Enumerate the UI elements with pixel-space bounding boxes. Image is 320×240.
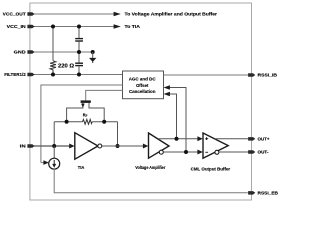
svg-text:AGC and DC: AGC and DC — [129, 76, 156, 82]
pin VCC_IN — [27, 25, 34, 29]
transistor Q1 gate bar — [81, 100, 91, 103]
wire OUT+ to pin — [215, 138, 248, 140]
svg-text:VCC_OUT: VCC_OUT — [3, 12, 26, 17]
wire TIA out — [102, 145, 144, 147]
svg-text:RSSI_IB: RSSI_IB — [258, 73, 278, 78]
arrow into CML + — [197, 136, 202, 141]
node gnd junction dot — [91, 50, 95, 54]
svg-text:+: + — [205, 137, 208, 143]
transistor Q1 left leg with arrow — [67, 103, 83, 122]
wire feedback left drop — [53, 122, 55, 146]
wire FILTER row — [34, 74, 123, 76]
svg-text:-: - — [205, 150, 209, 156]
resistor 220 ohm — [50, 61, 56, 75]
arrow into CML - — [197, 150, 202, 155]
current source I1 — [53, 146, 55, 158]
arrow into voltage amplifier — [143, 144, 148, 149]
pin OUT- — [248, 150, 255, 154]
svg-text:Offset: Offset — [136, 83, 149, 89]
pin VCC_OUT — [27, 12, 34, 16]
resistor Rf — [83, 119, 93, 124]
wire current source down — [54, 169, 248, 193]
wire VCC_OUT row — [34, 13, 114, 15]
op-amp voltage amplifier — [149, 133, 170, 158]
arrow into current source — [43, 160, 49, 165]
wire AGC tap upper (from lower rail) — [170, 88, 187, 153]
wire RSSI_IB row — [164, 74, 249, 76]
node dot FILTER x79 — [77, 73, 81, 77]
wire AGC to current source — [41, 162, 44, 164]
svg-text:OUT-: OUT- — [258, 150, 269, 155]
capacitor C2 — [75, 62, 83, 64]
node dot GND x79 — [77, 50, 81, 54]
VA output bubble — [159, 150, 163, 154]
node dot upper rail tap — [175, 137, 179, 141]
node dot VCC_IN x79 — [77, 25, 81, 29]
svg-text:Cancellation: Cancellation — [129, 89, 156, 95]
svg-text:220 Ω: 220 Ω — [58, 63, 74, 69]
CML output bubble — [215, 150, 219, 154]
svg-text:VCC_IN: VCC_IN — [7, 24, 27, 29]
wire AGC tap lower (from upper rail) — [170, 94, 177, 139]
wire cap column segment 2 — [78, 42, 80, 63]
op-amp TIA — [75, 133, 98, 160]
svg-text:IN: IN — [20, 144, 27, 149]
arrow to voltage amplifier — [114, 12, 121, 16]
chip outer box — [30, 3, 252, 200]
capacitor C1 — [75, 38, 83, 40]
svg-text:RF: RF — [83, 113, 88, 118]
wire feedback row left — [54, 121, 82, 123]
svg-text:RSSI_EB: RSSI_EB — [258, 191, 279, 196]
wire cap column segment 1 — [78, 27, 80, 39]
svg-text:OUT+: OUT+ — [258, 137, 270, 142]
svg-text:Voltage Amplifier: Voltage Amplifier — [135, 165, 165, 170]
wire resistor column top — [52, 27, 54, 61]
pin OUT+ — [248, 137, 255, 141]
wire feedback right drop — [117, 122, 119, 146]
wire feedback row right — [92, 121, 117, 123]
arrow into TIA — [69, 144, 74, 149]
pin FILTER1/2 — [27, 73, 34, 77]
svg-text:To Voltage Amplifier and Outpu: To Voltage Amplifier and Output Buffer — [125, 12, 218, 18]
arrow into AGC input 2 — [164, 92, 170, 96]
wire OUT- to pin — [219, 151, 248, 153]
node dot feedback right leg — [102, 120, 106, 124]
wire gnd stub — [92, 52, 94, 58]
TIA output bubble — [98, 144, 102, 148]
transistor Q1 right leg — [89, 103, 104, 122]
wire VCC_IN row — [34, 26, 114, 28]
node dot IN x54 — [52, 144, 56, 148]
arrow into AGC input 1 — [164, 85, 170, 89]
svg-text:CML Output Buffer: CML Output Buffer — [191, 166, 231, 171]
svg-text:To TIA: To TIA — [125, 24, 141, 30]
op-amp CML output buffer — [203, 133, 228, 158]
arrow to TIA — [114, 24, 121, 28]
node dot VCC_IN x53 — [51, 25, 55, 29]
node dot FILTER x53 — [51, 73, 55, 77]
AGC and DC Offset Cancellation box U2 — [123, 71, 164, 99]
wire OUT- row from VA bubble — [163, 151, 197, 153]
wire OUT+ row from VA — [158, 138, 198, 140]
node dot feedback left leg — [65, 120, 69, 124]
node dot TIA out x117 — [116, 144, 120, 148]
node dot lower rail tap — [184, 150, 188, 154]
svg-text:FILTER1/2: FILTER1/2 — [4, 72, 26, 77]
wire AGC left gate output — [86, 90, 123, 100]
pin RSSI_IB — [248, 73, 255, 77]
svg-text:TIA: TIA — [78, 165, 85, 170]
pin RSSI_EB — [248, 191, 255, 195]
pin GND — [27, 50, 34, 54]
wire GND row — [34, 51, 93, 53]
wire AGC left mid output — [41, 85, 123, 163]
pin IN — [27, 144, 34, 148]
wire cap column segment 3 — [78, 66, 80, 74]
ground — [89, 58, 96, 62]
wire IN row — [34, 145, 70, 147]
svg-text:GND: GND — [14, 50, 27, 55]
